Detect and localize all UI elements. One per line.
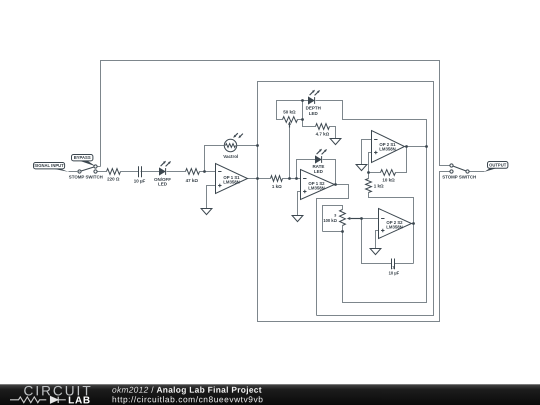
wire node to R6 top xyxy=(368,173,370,179)
wire DEPTH LED cathode route to op-amp U3 output and pot P2 xyxy=(316,101,427,303)
wire U2 output jog down left column xyxy=(317,185,349,316)
svg-text:LED: LED xyxy=(314,169,324,174)
op-amp U1 OP 1 S1 LM358N xyxy=(216,164,248,194)
svg-text:220 Ω: 220 Ω xyxy=(107,177,120,182)
op-amp U4 OP 2 S2 LM358N xyxy=(379,209,412,239)
op-amp U3 OP 2 S1 LM358N xyxy=(372,131,405,163)
junction DEPTH LED anode node xyxy=(301,99,304,102)
svg-text:LM358N: LM358N xyxy=(379,147,395,152)
wire U1 output to R3 xyxy=(248,178,271,180)
capacitor C1 10uF plates xyxy=(139,166,142,177)
wire U3 inverting input to ground xyxy=(362,140,372,165)
node flag OUTPUT xyxy=(484,162,508,172)
photoresistor vactrol xyxy=(224,133,243,152)
wire U3 non-inverting input to feedback node xyxy=(369,153,372,173)
svg-text:STOMP SWITCH: STOMP SWITCH xyxy=(69,175,103,180)
svg-text:LED: LED xyxy=(309,111,319,116)
junction node at R2 output / vactrol branch xyxy=(203,170,206,173)
wire U2 non-inverting input to ground xyxy=(298,192,301,216)
wire U3 output to net column xyxy=(405,146,427,148)
svg-text:1 kΩ: 1 kΩ xyxy=(374,184,384,189)
junction vactrol right on net column xyxy=(256,144,259,147)
svg-text:50 kΩ: 50 kΩ xyxy=(283,110,296,115)
svg-text:okm2012 / Analog Lab Final Pro: okm2012 / Analog Lab Final Project xyxy=(112,385,262,395)
ground below U4 xyxy=(370,249,381,255)
potentiometer P2 100k xyxy=(340,210,362,226)
resistor R2 47k zigzag xyxy=(186,169,200,175)
node flag SIGNAL INPUT xyxy=(34,163,69,172)
wire left switch to R1 xyxy=(98,171,107,173)
wire long routed net to right stomp switch lower terminal xyxy=(258,82,450,322)
resistor R6 1k vertical zigzag xyxy=(366,179,372,193)
diode D2 DEPTH LED xyxy=(309,90,321,104)
wire node to vactrol left terminal xyxy=(205,146,225,172)
wire U1 non-inverting input to ground xyxy=(207,186,216,209)
junction RATE LED loop at U2 input xyxy=(295,177,298,180)
wire pot P1 left terminal loop to DEPTH LED anode xyxy=(277,101,309,120)
svg-text:100 kΩ: 100 kΩ xyxy=(323,218,337,223)
wire pot P2 wiper node to U4 inverting input xyxy=(362,218,379,220)
svg-text:OUTPUT: OUTPUT xyxy=(489,163,507,168)
wire C1 to ON/OFF LED xyxy=(141,171,160,173)
svg-text:STOMP SWITCH: STOMP SWITCH xyxy=(442,175,476,180)
wire depth node down to R4 xyxy=(303,101,316,127)
wire pot P2 body loop lower xyxy=(323,231,343,233)
junction U3 output at net column xyxy=(425,145,428,148)
svg-text:BYPASS: BYPASS xyxy=(74,155,91,160)
wire U4 output stub xyxy=(412,223,414,225)
wire pot P1 wiper down to U2 input node xyxy=(289,125,291,179)
wire R1 to C1 xyxy=(121,171,139,173)
svg-text:LAB: LAB xyxy=(68,395,91,405)
svg-text:47 kΩ: 47 kΩ xyxy=(186,178,199,183)
wire C2 to U4 output column xyxy=(395,263,414,265)
wire right switch common to OUTPUT flag xyxy=(470,171,485,173)
wire U4 inverting node down to C2 xyxy=(362,219,392,264)
ground below U1 xyxy=(201,209,212,215)
junction P1 wiper at U2 input xyxy=(288,177,291,180)
wire pot P2 bottom stub xyxy=(342,226,344,232)
diode D3 RATE LED xyxy=(316,149,328,163)
junction U4 output node xyxy=(412,222,415,225)
ground below U2 xyxy=(292,216,303,222)
svg-text:10 µF: 10 µF xyxy=(389,271,400,276)
wire SIGNAL INPUT flag to switch xyxy=(69,171,80,173)
svg-text:LM358N: LM358N xyxy=(223,180,239,185)
svg-text:LM358N: LM358N xyxy=(386,225,402,230)
wire pot P1 right stub xyxy=(298,119,303,121)
svg-text:http://circuitlab.com/cn8ueevw: http://circuitlab.com/cn8ueevwtv9vb xyxy=(112,394,263,404)
junction RATE LED cathode at U2 output xyxy=(334,183,337,186)
wire vactrol right terminal to net column xyxy=(237,145,258,147)
svg-text:SIGNAL INPUT: SIGNAL INPUT xyxy=(34,163,64,168)
junction P2 bottom terminal xyxy=(341,230,344,233)
logo resistor-diode glyph xyxy=(10,397,46,403)
capacitor C2 10uF plates xyxy=(392,259,395,270)
svg-text:10 kΩ: 10 kΩ xyxy=(382,177,395,182)
switch SW1 left stomp switch xyxy=(78,165,97,173)
diode D1 ON/OFF LED xyxy=(160,161,172,175)
wire U4 non-inverting input to ground xyxy=(376,231,379,249)
svg-text:LM358N: LM358N xyxy=(308,186,324,191)
wire LED to R2 xyxy=(167,171,186,173)
wire input node up to RATE LED anode xyxy=(297,160,316,179)
resistor R4 4.7k zigzag xyxy=(316,124,330,130)
wire R2 to op-amp U1 inverting input xyxy=(200,171,216,173)
svg-text:Vactrol: Vactrol xyxy=(223,154,238,159)
junction R5 R6 U3 non-inverting node xyxy=(367,171,370,174)
resistor R3 1k zigzag xyxy=(271,176,283,182)
op-amp U2 OP 1 S2 LM358N xyxy=(301,170,335,200)
ground below R4 xyxy=(330,139,341,145)
wire R5 to U3 output xyxy=(396,147,407,173)
ground at U3 inverting input xyxy=(356,165,367,171)
node flag BYPASS xyxy=(72,155,96,167)
svg-text:4.7 kΩ: 4.7 kΩ xyxy=(316,131,330,136)
svg-text:10 µF: 10 µF xyxy=(134,179,146,184)
switch SW2 right stomp switch xyxy=(450,164,469,173)
wire R4 to ground xyxy=(330,127,336,139)
junction P1 right terminal node xyxy=(301,118,304,121)
resistor R5 10k zigzag xyxy=(381,170,396,176)
svg-text:1 kΩ: 1 kΩ xyxy=(272,184,282,189)
wire R6 bottom to op-amp U4 output column xyxy=(369,193,414,264)
wire pot P2 body loop upper xyxy=(323,206,343,232)
footer bar xyxy=(0,384,540,405)
wire node to R5 xyxy=(369,172,381,174)
junction U1 output on net column xyxy=(256,177,259,180)
potentiometer P1 50k xyxy=(283,117,298,128)
junction feedback tap on U3 output xyxy=(405,145,408,148)
wire R3 to op-amp U2 inverting input xyxy=(283,178,301,180)
wire RATE LED cathode down to U2 output xyxy=(323,160,336,185)
wire left switch bypass throw stub xyxy=(98,166,101,168)
svg-text:LED: LED xyxy=(158,182,168,187)
resistor R1 220 Ohm zigzag xyxy=(107,169,121,175)
junction U4 inverting node xyxy=(360,217,363,220)
wire bypass rail from left stomp switch to right stomp switch xyxy=(101,61,450,167)
